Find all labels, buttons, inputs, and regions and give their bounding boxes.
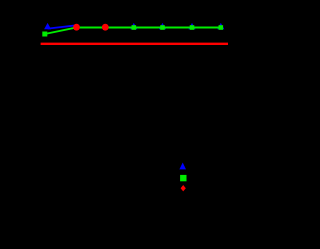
blue triangle marker 7 — [217, 23, 224, 29]
green curve — [45, 28, 221, 35]
blue triangle marker 5 — [159, 23, 166, 29]
green square marker 1 — [42, 32, 47, 37]
blue triangle marker 4 — [130, 23, 137, 29]
green square marker 4 — [132, 25, 137, 30]
red horizontal line — [41, 43, 228, 45]
blue triangle marker 1 — [44, 23, 51, 29]
blue triangle marker 6 — [188, 23, 195, 29]
red circle marker 3 — [102, 24, 109, 31]
legend blue triangle — [179, 163, 186, 170]
legend red diamond — [181, 185, 186, 191]
green square marker 5 — [160, 25, 165, 30]
green square marker 7 — [219, 25, 224, 30]
red circle marker 2 — [73, 24, 80, 31]
green square marker 6 — [190, 25, 195, 30]
blue curve flat segment (hidden under green curve) — [77, 27, 221, 29]
legend green square — [180, 175, 186, 181]
blue curve rising left segment — [48, 25, 77, 28]
